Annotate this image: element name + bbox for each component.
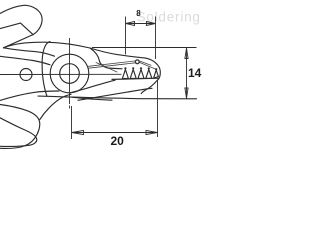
beak lower line (4, 48, 55, 56)
blade edge line 2 (96, 63, 117, 73)
dim 14 top arrowhead (185, 48, 188, 58)
head bottom edge (38, 96, 197, 99)
lower lever arm edge (40, 94, 71, 119)
dim 8 left arrowhead (126, 22, 135, 26)
dim 8 left extension line (125, 17, 127, 55)
dim 20 line (72, 132, 158, 134)
upper lever lower edge to beak tip (4, 35, 34, 48)
svg-text:20: 20 (111, 134, 125, 148)
upper handle loop outer (0, 5, 42, 34)
serrated teeth outlined (122, 69, 158, 78)
vertical centerline dashes (69, 106, 71, 111)
spring rod upper line (89, 61, 136, 66)
head left cap (42, 42, 50, 97)
svg-text:8: 8 (136, 9, 141, 18)
vertical centerline (69, 38, 71, 104)
spring rod lower line (89, 63, 136, 68)
dim 20 left extension line (71, 106, 73, 139)
dim 8 right arrowhead (146, 22, 155, 26)
dim 14 top reference line (92, 47, 197, 49)
lower lever under-edge (72, 97, 112, 100)
spring rod tip circle (135, 60, 139, 64)
pivot outer circle (50, 54, 89, 93)
dim 20 left arrowhead (72, 130, 84, 134)
lower blade sweep curve (70, 80, 115, 93)
hatch line from rod 1 (139, 62, 156, 69)
teeth baseline (112, 78, 159, 79)
teeth tip dots (124, 67, 157, 70)
upper handle loop inner (0, 23, 33, 34)
horizontal centerline (0, 73, 122, 75)
head top edge from beak (4, 42, 147, 58)
dim 8 right extension line (155, 17, 157, 60)
lower handle top line (0, 91, 59, 101)
pivot inner circle (60, 64, 80, 84)
dim 20 right arrowhead (146, 130, 157, 134)
dim 20 right extension line (157, 80, 159, 137)
head right cap (141, 58, 160, 93)
hatch line from rod 2 (139, 61, 151, 65)
lower lever top edge (0, 56, 50, 65)
lower blade diagonal (78, 88, 152, 100)
dim 14 bottom arrowhead (185, 88, 188, 98)
lower handle loop slot (0, 118, 37, 147)
dim 14 arrow line (186, 48, 188, 99)
lower handle loop outer (0, 105, 40, 149)
svg-text:14: 14 (188, 66, 202, 80)
dim 8 line (126, 23, 156, 25)
small circle left (20, 69, 32, 81)
upper blade cutting edge (90, 48, 122, 69)
